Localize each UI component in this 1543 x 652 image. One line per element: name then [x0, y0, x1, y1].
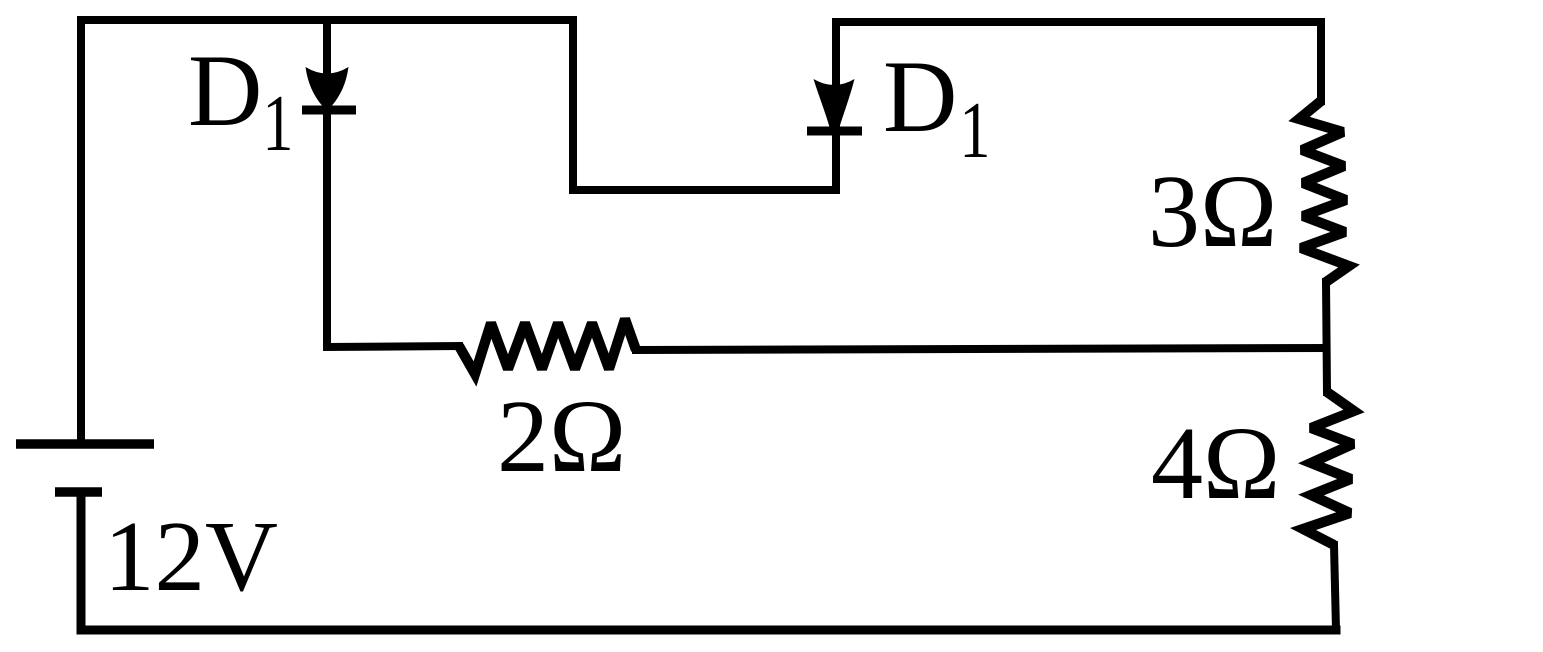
svg-text:1: 1 — [262, 80, 293, 168]
wire right vertical between 3ohm and 4ohm — [1326, 282, 1327, 392]
resistor 3ohm zigzag — [1299, 101, 1349, 282]
svg-text:12V: 12V — [104, 500, 278, 612]
wire middle horizontal left lead of 2ohm — [327, 346, 459, 347]
wire diode D1 left branch vertical — [323, 16, 331, 347]
resistor 4ohm zigzag — [1303, 392, 1354, 545]
diode D1 right arrow — [814, 79, 855, 127]
svg-text:2Ω: 2Ω — [497, 379, 626, 494]
wire top-left horizontal — [81, 20, 573, 444]
resistor 2ohm zigzag — [459, 319, 636, 374]
svg-text:3Ω: 3Ω — [1148, 154, 1277, 269]
svg-text:D: D — [188, 34, 262, 148]
battery positive plate (long) — [16, 439, 154, 449]
wire diode D1 right branch vertical — [832, 18, 840, 190]
svg-text:D: D — [883, 40, 957, 154]
wire notch bottom horizontal — [573, 186, 836, 194]
wire right vertical below 4ohm — [1334, 545, 1336, 630]
svg-text:4Ω: 4Ω — [1151, 406, 1280, 521]
battery negative plate (short) — [55, 487, 102, 497]
wire middle horizontal right lead of 2ohm — [636, 348, 1326, 350]
wire bottom horizontal — [81, 492, 1336, 630]
wire top-right horizontal — [836, 22, 1321, 101]
diode D1 left cathode bar — [302, 106, 356, 115]
svg-text:1: 1 — [959, 87, 990, 175]
diode D1 right cathode bar — [807, 127, 862, 136]
diode D1 left arrow — [306, 67, 349, 106]
wire notch vertical — [569, 16, 577, 190]
